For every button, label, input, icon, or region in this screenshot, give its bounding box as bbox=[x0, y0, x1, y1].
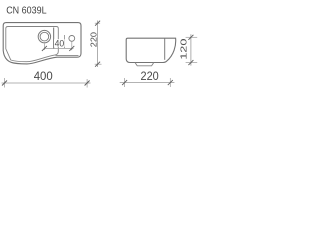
side view mounting foot bbox=[135, 63, 154, 66]
svg-text:120: 120 bbox=[179, 38, 189, 60]
faucet hole inner circle bbox=[40, 32, 49, 41]
120 dimension line bbox=[190, 34, 192, 65]
400 left tick bbox=[2, 81, 7, 86]
svg-text:40: 40 bbox=[55, 38, 65, 48]
120 dim top extension bbox=[186, 36, 198, 38]
220 top-view dim bottom extension bbox=[95, 63, 102, 65]
400 dim right extension bbox=[86, 79, 88, 88]
top view inner rim outline bbox=[6, 27, 59, 62]
220 top-view dim top extension bbox=[95, 22, 100, 24]
tick at faucet hole bbox=[42, 46, 47, 51]
extension line right of 40 text bbox=[63, 35, 65, 49]
220 top-view dimension line bbox=[97, 21, 99, 68]
side 220 left tick bbox=[122, 80, 127, 85]
tick at small hole bbox=[69, 46, 74, 51]
400 dim left extension bbox=[4, 78, 6, 88]
small hole circle bbox=[69, 36, 75, 42]
120 top tick bbox=[188, 35, 193, 40]
side 220 dimension line bbox=[120, 82, 175, 84]
text halo bbox=[54, 39, 65, 47]
svg-text:220: 220 bbox=[88, 32, 98, 47]
400 dimension line bbox=[2, 82, 91, 84]
220 top-view bottom tick bbox=[95, 62, 100, 67]
svg-text:400: 400 bbox=[34, 71, 53, 83]
400 right tick bbox=[85, 81, 90, 86]
deck front edge line bbox=[56, 54, 79, 56]
120 dim bottom extension bbox=[186, 62, 198, 64]
220 top-view top tick bbox=[95, 21, 100, 26]
centerline under faucet hole bbox=[43, 43, 45, 50]
side 220 dim right extension bbox=[169, 78, 171, 87]
hole distance dimension line bbox=[44, 47, 74, 49]
faucet hole outer circle bbox=[38, 30, 50, 42]
top view outer outline bbox=[3, 23, 81, 64]
centerline under small hole bbox=[71, 41, 73, 50]
side view outline bbox=[126, 38, 176, 62]
extension line left of 40 text bbox=[53, 28, 55, 50]
svg-text:CN 6039L: CN 6039L bbox=[6, 6, 47, 17]
side 220 dim left extension bbox=[124, 78, 126, 87]
side 220 right tick bbox=[168, 80, 173, 85]
side view bowl back wall bbox=[164, 39, 166, 60]
svg-text:220: 220 bbox=[141, 71, 159, 83]
120 bottom tick bbox=[188, 60, 193, 65]
